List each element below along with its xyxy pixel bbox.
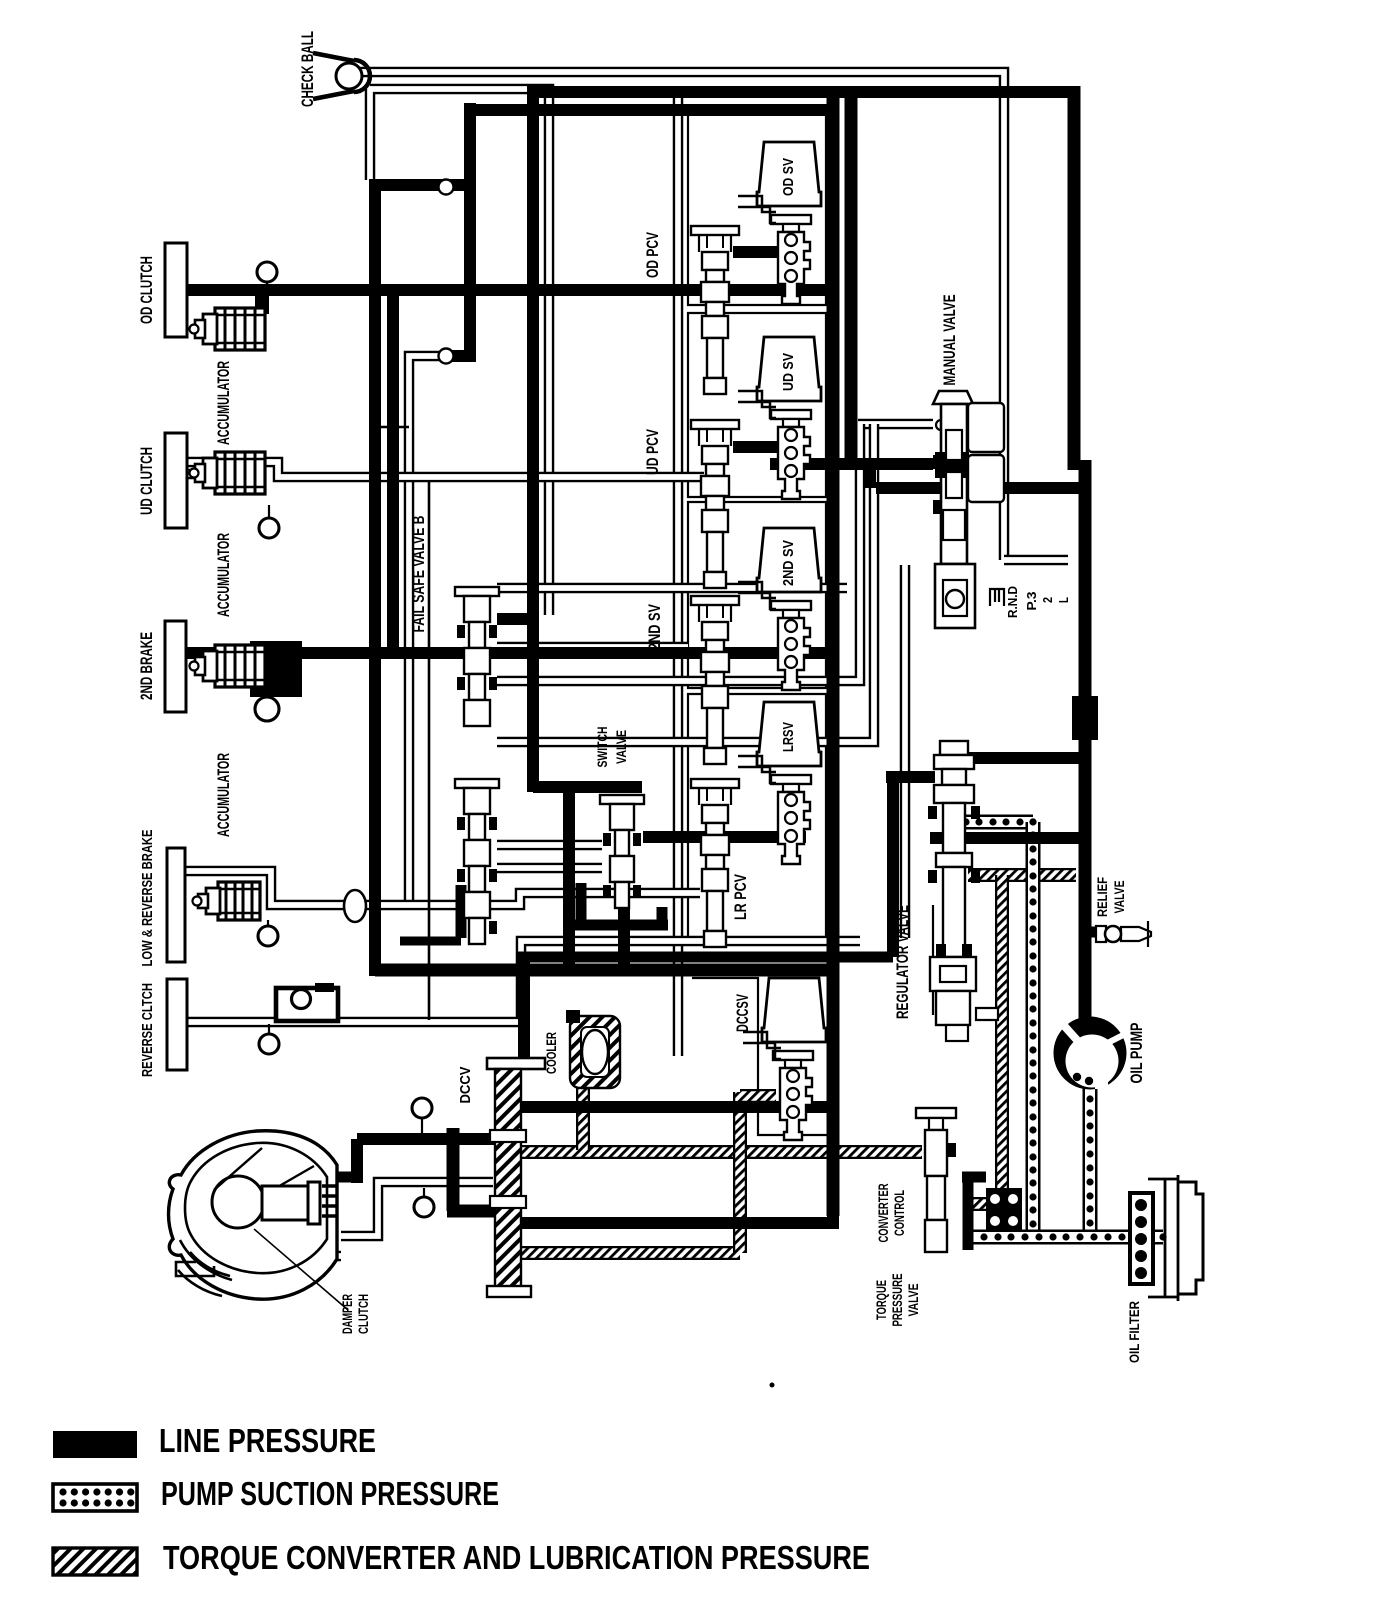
line pressure regulator top right: [950, 752, 1085, 764]
hatched pipe DCCV lower: [514, 1246, 740, 1260]
line pressure staircase vertical: [563, 787, 575, 970]
damper clutch label: [339, 1294, 371, 1334]
reverse vent ball: [259, 1024, 279, 1054]
dotted pipe vertical left: [1029, 818, 1036, 1240]
OD SV solenoid: [757, 142, 821, 206]
svg-text:ACCUMULATOR: ACCUMULATOR: [215, 753, 233, 837]
2nd brake: [138, 621, 186, 712]
low and reverse brake: [139, 830, 185, 967]
svg-text:VALVE: VALVE: [613, 730, 629, 764]
svg-text:UD PCV: UD PCV: [644, 429, 662, 475]
svg-text:DCCSV: DCCSV: [734, 994, 752, 1032]
svg-text:RELIEF: RELIEF: [1094, 877, 1110, 917]
regulator valve: [894, 741, 998, 1041]
legend torque text: [163, 1539, 870, 1576]
label L: [1056, 597, 1071, 603]
svg-text:LRSV: LRSV: [780, 722, 797, 752]
svg-text:DAMPER: DAMPER: [339, 1294, 355, 1334]
svg-text:REGULATOR VALVE: REGULATOR VALVE: [894, 905, 912, 1019]
2ND PCV: [646, 596, 739, 764]
svg-text:OD SV: OD SV: [780, 158, 797, 196]
wire manual valve top link: [858, 419, 933, 430]
line pressure DCCV feed vertical: [518, 957, 530, 1062]
reverse check ball box: [276, 983, 338, 1021]
svg-text:L: L: [1056, 597, 1071, 603]
hatched pipe cooler drop: [576, 1086, 590, 1150]
line pressure relief stub: [1080, 927, 1098, 938]
line pressure switch feed: [533, 781, 642, 793]
manual valve top ball: [936, 420, 946, 430]
line pressure manual to right: [876, 482, 1080, 494]
wire elbow thin left: [409, 356, 446, 900]
svg-text:P.3: P.3: [1024, 592, 1039, 611]
torque pressure valve: [873, 1108, 956, 1327]
svg-text:2ND SV: 2ND SV: [780, 540, 797, 586]
wire manual valve drop 2: [497, 424, 874, 742]
reverse clutch: [139, 979, 187, 1077]
fail safe valve B: [410, 515, 499, 726]
relief valve: [1094, 877, 1151, 947]
accumulator OD feed stub: [255, 294, 269, 314]
UD vent ball: [259, 505, 279, 538]
solenoid row box OD: [688, 111, 826, 305]
OD SV finger: [738, 196, 811, 304]
wire upper link: [370, 89, 549, 615]
svg-text:DCCV: DCCV: [457, 1067, 474, 1104]
svg-text:LOW & REVERSE BRAKE: LOW & REVERSE BRAKE: [139, 830, 156, 967]
svg-text:OD PCV: OD PCV: [644, 232, 662, 278]
svg-text:PRESSURE: PRESSURE: [889, 1274, 905, 1327]
shift gate glyph: [990, 589, 1004, 606]
svg-text:2ND BRAKE: 2ND BRAKE: [138, 632, 156, 700]
wire failsafe-switch link a: [497, 840, 602, 851]
line pressure manual drop vertical: [887, 772, 899, 957]
LRSV finger: [738, 756, 811, 864]
line pressure bottom band right: [517, 952, 893, 963]
converter vent ball 1: [412, 1098, 432, 1133]
line pressure DCCSV link: [514, 1101, 839, 1113]
fail safe lower spool black vertical: [400, 885, 461, 941]
legend pump suction swatch: [53, 1484, 137, 1511]
svg-text:VALVE: VALVE: [905, 1284, 921, 1317]
legend pump suction text: [161, 1475, 499, 1512]
fail safe lower spool: [455, 779, 499, 944]
svg-text:SWITCH: SWITCH: [594, 727, 610, 768]
accumulator UD: [190, 452, 266, 617]
solenoid row box LR: [688, 694, 826, 938]
2ND SV solenoid: [757, 528, 821, 592]
line pressure UD pcv link: [733, 441, 798, 453]
2nd accumulator black mass: [190, 641, 303, 837]
svg-text:VALVE: VALVE: [1111, 881, 1127, 914]
wire manual valve drop 3: [900, 565, 911, 938]
oil pump: [1054, 1017, 1147, 1090]
DCCSV finger: [743, 1032, 813, 1140]
junction circle B: [439, 349, 454, 364]
line pressure OD pcv link: [733, 246, 798, 258]
svg-text:OIL FILTER: OIL FILTER: [1126, 1301, 1142, 1363]
solenoid row box 2ND: [688, 502, 826, 688]
svg-text:CONVERTER: CONVERTER: [875, 1184, 891, 1243]
line pressure right main vertical: [1074, 86, 1085, 1042]
LR vent ball: [258, 920, 278, 946]
accumulator LR: [193, 882, 261, 920]
hatched pipe mid vertical: [733, 1092, 747, 1253]
hatched pipe DCCSV elbow: [740, 1089, 776, 1103]
UD PCV: [644, 420, 739, 588]
svg-text:2: 2: [1040, 597, 1055, 603]
2nd vent ball: [255, 690, 279, 721]
wire converter out line: [341, 1182, 493, 1236]
svg-text:CONTROL: CONTROL: [891, 1190, 907, 1236]
line pressure solenoid vertical 2: [845, 92, 858, 464]
label RND: [1005, 586, 1020, 618]
svg-text:FAIL SAFE VALVE B: FAIL SAFE VALVE B: [410, 515, 428, 632]
svg-text:TORQUE CONVERTER AND LUBRICATI: TORQUE CONVERTER AND LUBRICATION PRESSUR…: [163, 1539, 870, 1576]
label P3: [1024, 592, 1039, 611]
2ND SV finger: [738, 582, 811, 690]
svg-text:PUMP SUCTION PRESSURE: PUMP SUCTION PRESSURE: [161, 1475, 499, 1512]
svg-text:2ND SV: 2ND SV: [646, 604, 664, 650]
line pressure elbow 185: [369, 179, 470, 191]
damper clutch leader: [254, 1229, 348, 1310]
solenoid column outer wire: [673, 86, 684, 1056]
svg-text:REVERSE CLTCH: REVERSE CLTCH: [139, 983, 156, 1077]
low reverse oval: [344, 890, 366, 922]
check ball: [299, 31, 370, 107]
DCCSV solenoid: [734, 978, 826, 1042]
converter vent ball 2: [414, 1188, 434, 1217]
wire check ball line: [357, 72, 1004, 560]
converter control: [875, 1177, 1022, 1250]
junction circle A: [439, 180, 454, 195]
hatched pipe vertical long: [995, 875, 1009, 1208]
line pressure bottom band left: [375, 964, 836, 977]
UD SV solenoid: [757, 337, 821, 401]
line pressure manual drop stub: [886, 771, 935, 783]
line pressure DCCV bottom link: [514, 1107, 839, 1223]
oil filter: [1126, 1175, 1203, 1363]
switch valve: [594, 727, 644, 909]
LRSV solenoid: [757, 702, 821, 766]
wire UD accumulator stub: [187, 469, 252, 480]
line pressure failsafe stub: [497, 613, 539, 625]
line pressure DCCV left U: [447, 1128, 496, 1211]
line pressure elbow 356: [446, 350, 470, 362]
hatched pipe bottom elbow: [968, 1197, 1002, 1211]
hatched pipe DCCV to TPV: [514, 1145, 922, 1159]
svg-text:TORQUE: TORQUE: [873, 1280, 889, 1320]
wire manual valve drop 1: [497, 424, 860, 681]
svg-text:COOLER: COOLER: [543, 1032, 559, 1074]
legend line pressure swatch: [53, 1431, 137, 1458]
DCCV: [457, 1058, 545, 1297]
dotted pipe regulator out: [962, 818, 1036, 825]
dotted pipe pump down: [1086, 1081, 1093, 1240]
line pressure left tall vertical: [369, 185, 381, 976]
OD PCV: [644, 226, 739, 394]
wire failsafe-switch link b: [497, 863, 602, 874]
OD vent ball: [257, 262, 277, 290]
wire reverse clutch line: [187, 941, 860, 1022]
line pressure right block: [1072, 696, 1098, 740]
svg-text:OD CLUTCH: OD CLUTCH: [138, 256, 156, 324]
svg-text:UD SV: UD SV: [780, 353, 797, 391]
svg-text:R.N.D: R.N.D: [1005, 586, 1020, 618]
svg-text:CHECK BALL: CHECK BALL: [299, 31, 317, 107]
line pressure regulator right 2: [930, 832, 1085, 844]
line pressure top outer: [538, 86, 1074, 98]
wire fail-safe right link: [497, 642, 688, 653]
svg-text:MANUAL VALVE: MANUAL VALVE: [941, 295, 959, 386]
line pressure OD clutch line: [187, 284, 839, 296]
solenoid row box DCCSV: [692, 978, 830, 1135]
line pressure switch bottom: [575, 883, 668, 970]
line pressure switch right: [643, 831, 806, 843]
solenoid row box UD: [688, 313, 826, 497]
legend torque swatch: [53, 1548, 137, 1575]
fail safe box edge: [380, 427, 429, 1020]
line pressure 2nd brake line: [186, 647, 839, 659]
line pressure V533: [527, 86, 539, 792]
line pressure converter hub stub: [324, 1172, 363, 1183]
wire low-reverse line a: [185, 871, 344, 905]
label 2: [1040, 597, 1055, 603]
svg-text:UD CLUTCH: UD CLUTCH: [138, 447, 156, 515]
line pressure top inner: [464, 104, 833, 116]
UD SV finger: [738, 391, 811, 499]
wire converter lower: [200, 1251, 341, 1262]
svg-text:ACCUMULATOR: ACCUMULATOR: [215, 533, 233, 617]
hatched pipe regulator right: [968, 868, 1076, 882]
svg-text:ACCUMULATOR: ACCUMULATOR: [215, 361, 233, 445]
svg-text:CLUTCH: CLUTCH: [355, 1294, 371, 1334]
wire mid link 588: [497, 583, 847, 594]
wire manual valve right link: [1004, 555, 1068, 566]
line pressure converter top: [357, 1139, 500, 1183]
hatched pipe TPV up stub: [929, 1118, 943, 1152]
wire low-reverse line b: [366, 893, 700, 905]
stray dot: [770, 1383, 775, 1388]
legend line pressure text: [159, 1422, 376, 1459]
cooler: [543, 1010, 620, 1088]
accumulator OD: [190, 308, 266, 445]
svg-text:OIL PUMP: OIL PUMP: [1128, 1023, 1146, 1084]
dotted pipe bottom to filter: [966, 1233, 1166, 1240]
svg-text:LINE PRESSURE: LINE PRESSURE: [159, 1422, 376, 1459]
line pressure UD SV to manual valve: [770, 458, 933, 470]
LR PCV: [691, 779, 750, 947]
line pressure solenoid vertical 1: [827, 92, 840, 1216]
wire UD clutch line: [187, 462, 704, 477]
UD clutch: [138, 433, 187, 528]
line pressure V470: [464, 103, 476, 362]
line pressure step near manual: [864, 464, 876, 488]
line pressure second left vertical: [387, 290, 399, 657]
svg-text:LR PCV: LR PCV: [732, 874, 750, 920]
manual valve: [933, 295, 1004, 629]
torque converter: [169, 1131, 338, 1299]
OD clutch: [138, 243, 187, 337]
